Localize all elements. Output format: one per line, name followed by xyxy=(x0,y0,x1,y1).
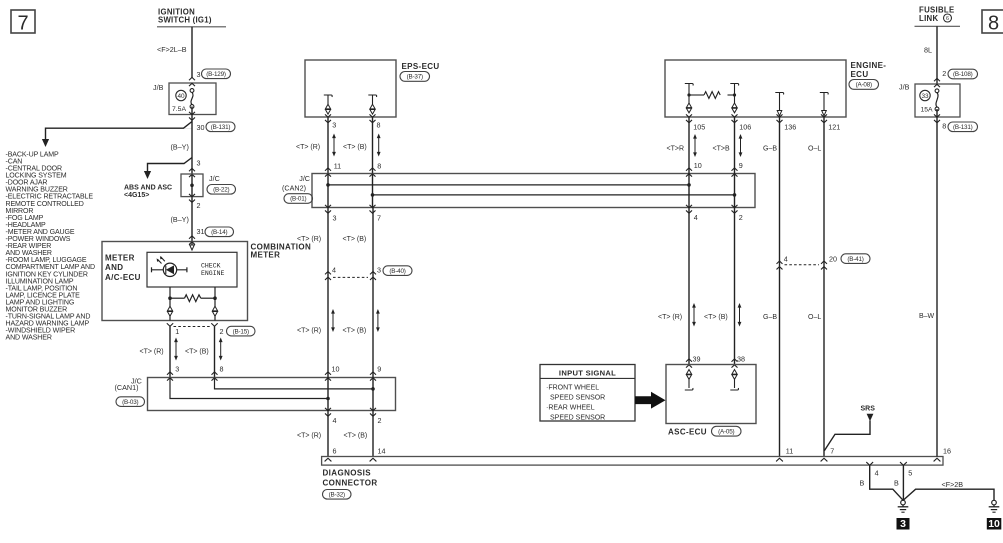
meter twisted pair wires xyxy=(169,298,171,320)
signal arrows engine CAN xyxy=(694,137,696,155)
svg-text:<T> (B): <T> (B) xyxy=(704,314,728,321)
svg-text:20: 20 xyxy=(829,255,837,264)
input marker into check engine xyxy=(191,242,193,246)
svg-text:INPUT SIGNAL: INPUT SIGNAL xyxy=(559,368,616,377)
svg-text:<T> (B): <T> (B) xyxy=(343,144,367,151)
fuse 40 symbol xyxy=(176,90,186,100)
svg-text:<T> (B): <T> (B) xyxy=(343,236,367,243)
signal arrows mid CAN xyxy=(332,312,334,330)
svg-text:3: 3 xyxy=(197,70,201,79)
svg-text:G–B: G–B xyxy=(763,146,777,153)
wire ignition to connector B-129 xyxy=(191,27,193,78)
svg-text:(B–Y): (B–Y) xyxy=(171,215,189,224)
svg-text:9: 9 xyxy=(377,365,381,374)
wires CAN2 to ASC-ECU xyxy=(688,208,690,365)
svg-text:8: 8 xyxy=(377,121,381,130)
SRS wire xyxy=(824,421,870,451)
svg-text:CHECK: CHECK xyxy=(201,263,221,270)
svg-text:31: 31 xyxy=(197,227,205,236)
svg-text:J/B: J/B xyxy=(153,83,164,92)
svg-text:(B-14): (B-14) xyxy=(211,229,227,236)
svg-text:2: 2 xyxy=(942,69,946,78)
svg-text:-REAR WIPER: -REAR WIPER xyxy=(6,243,52,250)
svg-text:2: 2 xyxy=(220,327,224,336)
svg-text:B–W: B–W xyxy=(919,313,935,320)
fuse 33 symbol xyxy=(920,90,930,100)
svg-text:SRS: SRS xyxy=(861,406,876,413)
svg-text:(B-40): (B-40) xyxy=(389,268,405,275)
connector B-131 pin 30 xyxy=(189,112,195,115)
svg-text:B: B xyxy=(860,479,865,488)
svg-text:METER: METER xyxy=(251,251,281,260)
svg-text:106: 106 xyxy=(739,123,751,132)
ASC-ECU box xyxy=(666,365,756,424)
svg-text:MONITOR BUZZER: MONITOR BUZZER xyxy=(6,307,68,314)
svg-text:(B-131): (B-131) xyxy=(953,124,973,131)
diag bottom pins 4 and 5 xyxy=(866,462,873,465)
meter terminating resistor xyxy=(185,295,201,302)
wire branch to system list xyxy=(185,128,193,130)
svg-text:<4G15>: <4G15> xyxy=(124,192,149,199)
svg-text:7: 7 xyxy=(830,447,834,456)
svg-text:SPEED SENSOR: SPEED SENSOR xyxy=(550,395,605,402)
svg-text:LAMP, LICENCE PLATE: LAMP, LICENCE PLATE xyxy=(6,292,81,299)
meter internal wiring to resistor xyxy=(169,287,171,298)
svg-text:121: 121 xyxy=(828,123,840,132)
svg-text:<T> (R): <T> (R) xyxy=(297,433,321,440)
svg-text:4: 4 xyxy=(333,416,337,425)
svg-text:4: 4 xyxy=(694,213,698,222)
page number box 8 xyxy=(982,10,1003,33)
svg-text:3: 3 xyxy=(377,266,381,275)
connector J/C B-22 exit pin 2 xyxy=(189,194,195,197)
svg-text:ENGINE-: ENGINE- xyxy=(851,61,887,70)
svg-text:10: 10 xyxy=(332,365,340,374)
svg-text:G–B: G–B xyxy=(763,314,777,321)
svg-text:ABS AND ASC: ABS AND ASC xyxy=(124,185,172,192)
svg-text:40: 40 xyxy=(177,93,185,100)
input signal arrow xyxy=(635,392,666,409)
ground symbol left xyxy=(901,500,906,505)
svg-text:(B-131): (B-131) xyxy=(211,124,231,131)
svg-text:1: 1 xyxy=(175,327,179,336)
svg-text:-METER AND GAUGE: -METER AND GAUGE xyxy=(6,229,75,236)
ground ref box 3 xyxy=(897,518,910,530)
arrowhead to system list xyxy=(42,139,49,147)
svg-text:(B-22): (B-22) xyxy=(213,187,229,194)
svg-text:<T>R: <T>R xyxy=(667,146,685,153)
wire G-B engine to diagnosis xyxy=(779,117,781,457)
svg-text:(B-32): (B-32) xyxy=(329,492,345,499)
svg-text:ASC-ECU: ASC-ECU xyxy=(668,428,707,437)
svg-text:REMOTE CONTROLLED: REMOTE CONTROLLED xyxy=(6,201,84,208)
svg-text:(CAN1): (CAN1) xyxy=(115,383,139,392)
SRS arrowhead xyxy=(867,414,874,421)
svg-text:AND: AND xyxy=(105,263,123,272)
svg-text:-ELECTRIC RETRACTABLE: -ELECTRIC RETRACTABLE xyxy=(6,194,94,201)
svg-text:J/B: J/B xyxy=(899,83,910,92)
svg-text:3: 3 xyxy=(900,518,906,530)
svg-text:4: 4 xyxy=(784,255,788,264)
svg-text:SPEED SENSOR: SPEED SENSOR xyxy=(550,415,605,422)
ENGINE-ECU box xyxy=(665,60,846,117)
svg-text:-TURN-SIGNAL LAMP AND: -TURN-SIGNAL LAMP AND xyxy=(6,314,91,321)
svg-text:7: 7 xyxy=(377,214,381,223)
svg-text:-BACK-UP LAMP: -BACK-UP LAMP xyxy=(6,151,60,158)
connector B-131 pin 8 right xyxy=(934,114,940,117)
svg-text:<T> (R): <T> (R) xyxy=(140,349,164,356)
wire J/B to meter xyxy=(191,107,193,242)
svg-text:38: 38 xyxy=(737,355,745,364)
svg-text:(B-108): (B-108) xyxy=(953,71,973,78)
svg-text:·FRONT WHEEL: ·FRONT WHEEL xyxy=(546,384,599,391)
svg-text:8: 8 xyxy=(942,122,946,131)
signal arrows meter CAN xyxy=(175,340,177,358)
svg-text:ENGINE: ENGINE xyxy=(201,270,225,277)
LED indicator symbol xyxy=(152,269,187,271)
svg-text:(B-129): (B-129) xyxy=(206,71,226,78)
svg-text:HAZARD WARNING LAMP: HAZARD WARNING LAMP xyxy=(6,321,90,328)
svg-text:ECU: ECU xyxy=(851,70,869,79)
svg-text:(B-15): (B-15) xyxy=(233,328,249,335)
svg-text:<T> (R): <T> (R) xyxy=(297,328,321,335)
svg-text:WARNING BUZZER: WARNING BUZZER xyxy=(6,187,68,194)
ground wire pin 4 xyxy=(870,465,903,500)
svg-text:(B-03): (B-03) xyxy=(122,399,138,406)
svg-text:8: 8 xyxy=(988,13,999,35)
svg-text:8L: 8L xyxy=(924,46,932,55)
ENGINE pins 105 106 136 121 xyxy=(686,114,692,117)
CAN2 through wires left xyxy=(327,174,329,208)
svg-text:3: 3 xyxy=(332,121,336,130)
wire fusible link down xyxy=(936,26,938,84)
svg-text:ILLUMINATION LAMP: ILLUMINATION LAMP xyxy=(6,278,74,285)
svg-text:AND WASHER: AND WASHER xyxy=(6,335,52,342)
svg-text:10: 10 xyxy=(694,161,702,170)
svg-text:J/C: J/C xyxy=(209,174,220,183)
svg-text:10: 10 xyxy=(988,518,1000,530)
wire branch to ABS and ASC xyxy=(148,158,193,172)
svg-text:<T> (B): <T> (B) xyxy=(343,328,367,335)
svg-text:DIAGNOSIS: DIAGNOSIS xyxy=(323,468,372,477)
svg-text:<T> (R): <T> (R) xyxy=(297,236,321,243)
svg-text:LOCKING SYSTEM: LOCKING SYSTEM xyxy=(6,173,67,180)
diagnosis connector B-32 bar xyxy=(322,457,943,466)
svg-text:(A-05): (A-05) xyxy=(718,429,734,436)
junction connector J/C CAN2 B-01 box xyxy=(312,174,755,208)
ENGINE internal terminator resistor xyxy=(685,84,693,86)
svg-text:136: 136 xyxy=(784,123,796,132)
check engine lamp box xyxy=(147,252,237,287)
svg-text:METER: METER xyxy=(105,254,135,263)
junction connector J/C B-22 xyxy=(181,174,203,197)
svg-text:<T> (R): <T> (R) xyxy=(658,314,682,321)
svg-text:CONNECTOR: CONNECTOR xyxy=(323,478,378,487)
svg-text:14: 14 xyxy=(378,447,386,456)
svg-text:5: 5 xyxy=(908,469,912,478)
signal arrows ASC CAN xyxy=(693,306,695,325)
svg-text:-CENTRAL DOOR: -CENTRAL DOOR xyxy=(6,166,63,173)
wires EPS to J/C CAN2 xyxy=(327,117,329,174)
svg-text:15A: 15A xyxy=(921,107,934,114)
CAN2 bottom pins 4 and 2 xyxy=(686,205,692,208)
input signal box xyxy=(540,365,635,422)
svg-text:O–L: O–L xyxy=(808,146,821,153)
svg-text:-TAIL LAMP, POSITION: -TAIL LAMP, POSITION xyxy=(6,285,78,292)
ground wire pin 5 xyxy=(902,465,904,500)
ground ref box 10 xyxy=(987,518,1002,530)
svg-text:SWITCH (IG1): SWITCH (IG1) xyxy=(158,16,212,25)
arrowhead to ABS xyxy=(144,171,151,179)
svg-text:<T> (R): <T> (R) xyxy=(296,144,320,151)
wire O-L engine to diagnosis xyxy=(823,117,825,457)
svg-text:MIRROR: MIRROR xyxy=(6,208,34,215)
svg-text:(CAN2): (CAN2) xyxy=(282,184,306,193)
svg-text:30: 30 xyxy=(197,123,205,132)
signal arrows EPS xyxy=(333,136,335,154)
svg-text:9: 9 xyxy=(739,161,743,170)
svg-text:EPS-ECU: EPS-ECU xyxy=(402,62,440,71)
CAN1 internal bus wires xyxy=(215,378,374,389)
CAN1 bottom pins 4 and 2 xyxy=(325,408,331,411)
svg-text:-DOOR AJAR: -DOOR AJAR xyxy=(6,180,48,187)
ASC internal terminators xyxy=(686,370,691,375)
junction connector J/C CAN1 B-03 box xyxy=(148,378,396,411)
wires CAN2 to connector B-40 xyxy=(327,208,329,378)
svg-text:16: 16 xyxy=(943,447,951,456)
svg-text:-HEADLAMP: -HEADLAMP xyxy=(6,222,46,229)
CAN2 bottom pins 3 and 7 xyxy=(325,205,331,208)
svg-text:<F>2B: <F>2B xyxy=(942,480,964,489)
connector B-15 pins 1 and 2 xyxy=(167,323,173,326)
wire B-W to diagnosis pin 16 xyxy=(936,109,938,457)
svg-text:(B–Y): (B–Y) xyxy=(171,143,189,152)
svg-text:IGNITION KEY CYLINDER: IGNITION KEY CYLINDER xyxy=(6,271,88,278)
CAN2 through wires right xyxy=(688,174,690,208)
svg-text:2: 2 xyxy=(197,201,201,210)
wire meter pin1 to CAN1 pin3 xyxy=(169,326,171,377)
svg-text:4: 4 xyxy=(875,469,879,478)
svg-text:2: 2 xyxy=(739,213,743,222)
svg-text:A/C-ECU: A/C-ECU xyxy=(105,273,141,282)
svg-text:39: 39 xyxy=(693,355,701,364)
svg-text:7.5A: 7.5A xyxy=(172,106,186,113)
svg-text:-ROOM LAMP, LUGGAGE: -ROOM LAMP, LUGGAGE xyxy=(6,257,87,264)
wires CAN1 to diagnosis connector xyxy=(327,411,329,457)
svg-text:O–L: O–L xyxy=(808,314,821,321)
svg-text:6: 6 xyxy=(946,16,949,22)
svg-text:11: 11 xyxy=(334,162,341,171)
svg-text:3: 3 xyxy=(333,214,337,223)
svg-text:LINK: LINK xyxy=(919,14,938,23)
meter rail junction dots xyxy=(168,296,172,300)
svg-text:4: 4 xyxy=(332,266,336,275)
svg-text:<T> (B): <T> (B) xyxy=(185,349,209,356)
svg-text:<T>B: <T>B xyxy=(713,146,730,153)
svg-text:-POWER WINDOWS: -POWER WINDOWS xyxy=(6,236,71,243)
svg-text:·REAR WHEEL: ·REAR WHEEL xyxy=(546,405,595,412)
EPS-ECU box xyxy=(305,60,396,117)
svg-text:<F>2L–B: <F>2L–B xyxy=(157,45,187,54)
svg-text:J/C: J/C xyxy=(299,174,310,183)
svg-text:(B-37): (B-37) xyxy=(407,74,423,81)
svg-text:3: 3 xyxy=(197,159,201,168)
svg-text:7: 7 xyxy=(17,13,28,35)
svg-text:3: 3 xyxy=(175,365,179,374)
svg-text:(B-01): (B-01) xyxy=(290,196,306,203)
svg-text:(B-41): (B-41) xyxy=(847,256,863,263)
svg-text:COMPARTMENT LAMP AND: COMPARTMENT LAMP AND xyxy=(6,264,96,271)
svg-text:-FOG LAMP: -FOG LAMP xyxy=(6,215,44,222)
svg-text:-CAN: -CAN xyxy=(6,158,23,165)
page number box 7 xyxy=(11,10,35,33)
svg-text:6: 6 xyxy=(333,447,337,456)
svg-text:105: 105 xyxy=(693,123,705,132)
wires engine to CAN2 xyxy=(688,117,690,174)
svg-text:LAMP AND LIGHTING: LAMP AND LIGHTING xyxy=(6,299,75,306)
wire F2B to right ground xyxy=(904,489,995,500)
wire meter pin2 to CAN1 pin8 xyxy=(214,326,216,377)
svg-text:33: 33 xyxy=(921,93,929,100)
svg-text:-WINDSHIELD WIPER: -WINDSHIELD WIPER xyxy=(6,328,76,335)
CAN1 through wires xyxy=(327,378,329,411)
ENGINE internal stubs 136 121 xyxy=(775,93,783,95)
svg-text:B: B xyxy=(894,479,899,488)
EPS pins 3 and 8 xyxy=(325,114,331,117)
svg-text:11: 11 xyxy=(786,447,793,456)
svg-text:AND WASHER: AND WASHER xyxy=(6,250,52,257)
svg-text:2: 2 xyxy=(378,416,382,425)
ground symbol right xyxy=(992,500,997,505)
EPS internal terminators xyxy=(324,95,332,97)
svg-text:<T> (B): <T> (B) xyxy=(344,433,368,440)
svg-text:8: 8 xyxy=(377,162,381,171)
CAN2 internal bus wires xyxy=(328,184,689,186)
meter and A/C-ECU box xyxy=(102,242,248,321)
svg-text:8: 8 xyxy=(220,365,224,374)
svg-text:(A-08): (A-08) xyxy=(856,82,872,89)
